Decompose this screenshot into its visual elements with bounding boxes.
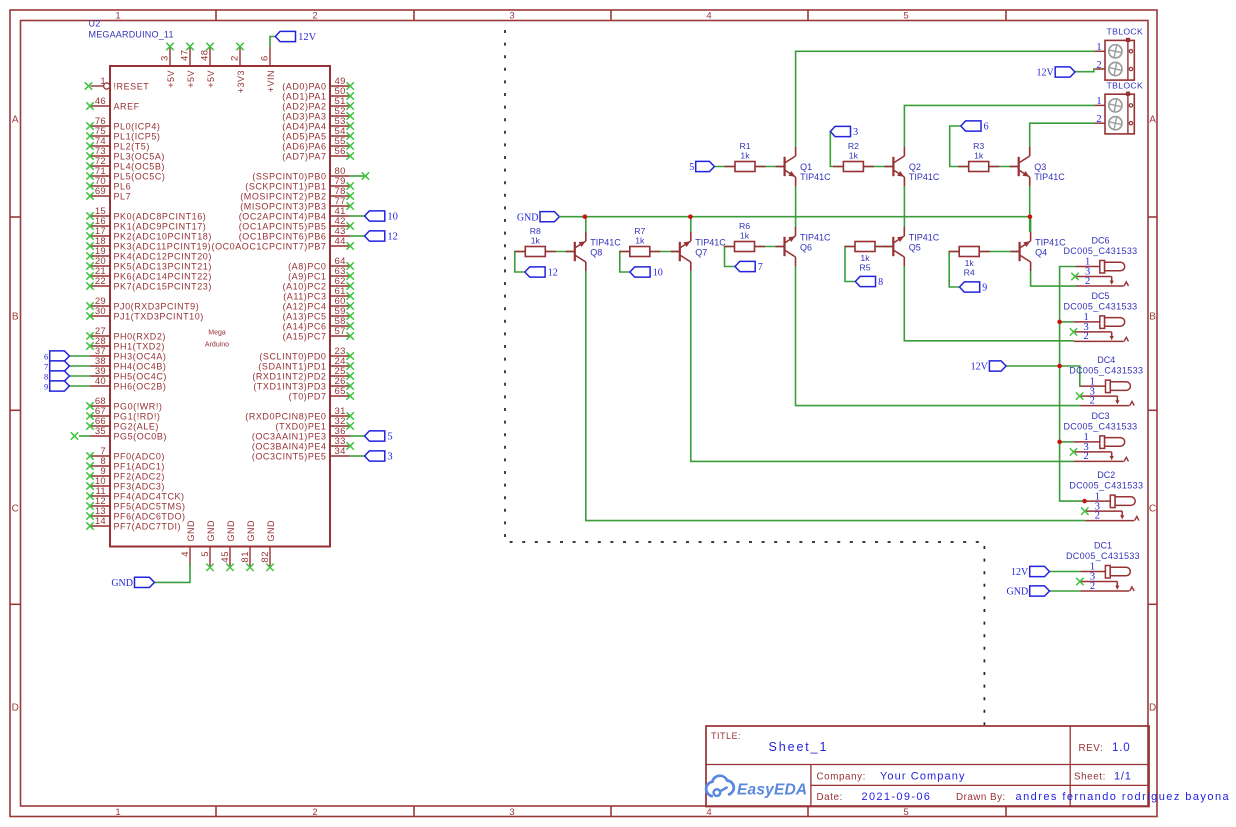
pin 16 (PK1(ADC9PCINT17)) left: [86, 216, 206, 231]
svg-text:EasyEDA: EasyEDA: [737, 782, 807, 799]
svg-text:(A10)PC2: (A10)PC2: [283, 281, 327, 291]
svg-text:56: 56: [335, 146, 346, 157]
power flag GND (rail): [517, 212, 560, 224]
svg-text:40: 40: [95, 376, 106, 387]
svg-text:GND: GND: [111, 578, 133, 589]
svg-text:PF6(ADC6TDO): PF6(ADC6TDO): [114, 511, 186, 521]
pin 24 ((SDAINT1)PD1) right: [258, 356, 354, 371]
pin 35 (PG5(OC0B)) left: [71, 426, 167, 441]
pin 41 ((OC2APCINT4)PB4) right: [239, 206, 350, 221]
svg-text:R5: R5: [859, 263, 870, 273]
svg-text:30: 30: [95, 306, 106, 317]
pin 49 ((AD0)PA0) right: [282, 76, 354, 91]
pin 79 ((SCKPCINT1)PB1) right: [245, 176, 354, 191]
power flag 12V (chip): [275, 31, 316, 43]
svg-text:U2: U2: [89, 19, 101, 29]
transistor Q7 TIP41C (NPN, flipped): [671, 232, 727, 271]
svg-text:(RXD0PCIN8)PE0: (RXD0PCIN8)PE0: [245, 411, 326, 421]
svg-text:2: 2: [1084, 331, 1089, 342]
wire GND flag to DC1 pin2: [1049, 590, 1080, 592]
pin 32 ((TXD0)PE1) right: [276, 416, 354, 431]
svg-text:Company:: Company:: [817, 771, 866, 782]
pin 66 (PG2(ALE)) left: [86, 416, 159, 431]
svg-text:C: C: [12, 504, 19, 515]
transistor Q4 TIP41C (NPN, flipped): [1011, 232, 1067, 271]
svg-text:(SCLINT0)PD0: (SCLINT0)PD0: [259, 351, 326, 361]
wire to net flag 5: [350, 435, 365, 437]
svg-text:1/1: 1/1: [1114, 771, 1132, 783]
svg-text:DC005_C431533: DC005_C431533: [1066, 551, 1140, 561]
svg-text:DC005_C431533: DC005_C431533: [1063, 421, 1137, 431]
svg-text:2: 2: [1096, 60, 1101, 71]
svg-text:1: 1: [1096, 42, 1101, 53]
net flag 10 (R7): [630, 267, 663, 279]
frame row letters right: [1149, 115, 1156, 714]
svg-text:(AD0)PA0: (AD0)PA0: [282, 81, 326, 91]
DC jack DC2 DC005_C431533: [1069, 470, 1143, 521]
net flag 8 (R5): [855, 276, 883, 288]
svg-text:Q4: Q4: [1035, 247, 1047, 257]
svg-text:D: D: [1149, 703, 1156, 714]
DC jack DC5 DC005_C431533: [1063, 291, 1137, 342]
svg-text:(RXD1INT2)PD2: (RXD1INT2)PD2: [252, 371, 326, 381]
svg-text:5: 5: [387, 432, 392, 443]
svg-text:3: 3: [509, 807, 514, 818]
pin 20 (PK5(ADC13PCINT21)) left: [86, 256, 212, 271]
svg-text:(AD6)PA6: (AD6)PA6: [282, 141, 326, 151]
svg-text:4: 4: [706, 807, 711, 818]
pin 75 (PL1(ICP5)) left: [86, 126, 160, 141]
IC U2 MEGAARDUINO_11: [89, 19, 331, 547]
svg-text:R4: R4: [964, 268, 975, 278]
svg-text:2: 2: [312, 11, 317, 22]
pin 43 ((OC1BPCINT6)PB6) right: [239, 226, 350, 241]
svg-text:1: 1: [115, 807, 120, 818]
pin 80 ((SSPCINT0)PB0) right: [252, 166, 369, 181]
svg-text:(TXD1INT3)PD3: (TXD1INT3)PD3: [253, 381, 326, 391]
wire to net flag 7: [69, 365, 90, 367]
svg-text:Sheet:: Sheet:: [1074, 772, 1106, 783]
pin 30 (PJ1(TXD3PCINT10)) left: [86, 306, 204, 321]
net flag 9: [44, 381, 69, 392]
pin 82 (GND) bottom: [260, 520, 276, 571]
svg-text:+VIN: +VIN: [266, 70, 276, 92]
svg-text:TIP41C: TIP41C: [909, 233, 940, 243]
svg-text:3: 3: [387, 452, 392, 463]
pin 65 ((T0)PD7) right: [289, 386, 354, 401]
svg-text:12V: 12V: [1036, 68, 1054, 79]
svg-text:8: 8: [878, 277, 883, 288]
pin 45 (GND) bottom: [220, 520, 236, 571]
transistor Q3 TIP41C (NPN): [1010, 147, 1066, 186]
wire DC5 pin1 tee: [1060, 321, 1074, 323]
pin 17 (PK2(ADC10PCINT18)) left: [86, 226, 212, 241]
svg-text:2: 2: [312, 807, 317, 818]
svg-text:1k: 1k: [974, 151, 984, 161]
svg-text:D: D: [12, 703, 19, 714]
svg-text:DC005_C431533: DC005_C431533: [1063, 246, 1137, 256]
wire flag7 to R6 to Q6 base: [725, 247, 785, 267]
wire GND rail: [559, 216, 1030, 218]
power flag 12V (TBLOCK1): [1036, 67, 1075, 79]
svg-text:82: 82: [260, 551, 271, 563]
svg-text:TBLOCK: TBLOCK: [1107, 27, 1144, 37]
pin 39 (PH5(OC4C)) left: [90, 366, 167, 381]
svg-text:12: 12: [548, 268, 558, 279]
svg-text:1k: 1k: [965, 258, 975, 268]
svg-text:6: 6: [984, 122, 989, 133]
pin 74 (PL2(T5)) left: [86, 136, 150, 151]
svg-text:PK3(ADC11PCINT19): PK3(ADC11PCINT19): [114, 241, 212, 251]
wire to net flag 8: [69, 375, 90, 377]
svg-text:1k: 1k: [860, 253, 870, 263]
pin 44 ((OC0AOC1CPCINT7)PB7) right: [212, 236, 354, 251]
wire flag5 to R1 to Q1 base: [714, 166, 784, 168]
pin 34 ((OC3CINT5)PE5) right: [252, 446, 350, 461]
net flag 3: [830, 126, 858, 138]
net flag 3: [365, 451, 393, 463]
svg-text:(AD5)PA5: (AD5)PA5: [282, 131, 326, 141]
svg-text:PL5(OC5C): PL5(OC5C): [114, 171, 166, 181]
svg-text:PH6(OC2B): PH6(OC2B): [114, 381, 167, 391]
svg-text:B: B: [12, 312, 19, 323]
net flag 6: [44, 351, 69, 362]
svg-text:2: 2: [1095, 510, 1100, 521]
svg-text:46: 46: [95, 96, 106, 107]
svg-text:34: 34: [335, 446, 346, 457]
svg-text:DC5: DC5: [1091, 291, 1109, 301]
svg-text:(A12)PC4: (A12)PC4: [283, 301, 327, 311]
pin 14 (PF7(ADC7TDI)) left: [86, 516, 181, 531]
pin 73 (PL3(OC5A)) left: [86, 146, 165, 161]
wire to net flag 3: [350, 455, 365, 457]
svg-text:TIP41C: TIP41C: [909, 172, 940, 182]
pin 69 (PL7) left: [86, 186, 131, 201]
svg-text:(OC3CINT5)PE5: (OC3CINT5)PE5: [252, 451, 327, 461]
wire DC pin1 bus (12V distribution): [1060, 267, 1086, 502]
pin 77 ((MISOPCINT3)PB3) right: [240, 196, 354, 211]
svg-text:69: 69: [95, 186, 106, 197]
wire flag12 to R8 to Q8 base: [515, 252, 575, 273]
wire Q4 collector to DC6 pin2: [1031, 271, 1076, 286]
dashed partition lines: [505, 30, 984, 725]
wire pin4 to GND flag: [154, 563, 190, 582]
wire flag9 to R4 to Q4 base: [949, 252, 1019, 288]
svg-text:6: 6: [44, 352, 48, 362]
svg-text:PK4(ADC12PCINT20): PK4(ADC12PCINT20): [114, 251, 212, 261]
pin 19 (PK4(ADC12PCINT20)) left: [86, 246, 212, 261]
svg-text:(A9)PC1: (A9)PC1: [288, 271, 326, 281]
svg-text:5: 5: [903, 11, 908, 22]
pin 27 (PH0(RXD2)) left: [86, 326, 166, 341]
pin 52 ((AD3)PA3) right: [282, 106, 354, 121]
svg-text:PH5(OC4C): PH5(OC4C): [114, 371, 167, 381]
svg-text:PL7: PL7: [114, 191, 132, 201]
pin 38 (PH4(OC4B)) left: [90, 356, 166, 371]
svg-text:(OC0AOC1CPCINT7)PB7: (OC0AOC1CPCINT7)PB7: [212, 241, 327, 251]
wire 12V flag (mid) to bus: [1006, 365, 1060, 367]
svg-text:PG0(!WR!): PG0(!WR!): [114, 401, 163, 411]
svg-text:(AD2)PA2: (AD2)PA2: [282, 101, 326, 111]
wire Q7 collector to DC3 pin2: [691, 271, 1074, 461]
pin 68 (PG0(!WR!)) left: [86, 396, 162, 411]
pin 18 (PK3(ADC11PCINT19)) left: [86, 236, 211, 251]
svg-text:2: 2: [230, 55, 241, 61]
wire bus to DC4 pin1: [1060, 366, 1081, 386]
svg-text:TIP41C: TIP41C: [800, 172, 831, 182]
junction (DC2 pin1): [1082, 499, 1087, 504]
svg-text:TITLE:: TITLE:: [711, 731, 741, 741]
pin 78 ((MOSIPCINT2)PB2) right: [240, 186, 354, 201]
svg-text:(A13)PC5: (A13)PC5: [283, 311, 327, 321]
svg-text:PF5(ADC5TMS): PF5(ADC5TMS): [114, 501, 186, 511]
svg-text:47: 47: [180, 49, 191, 61]
svg-text:2: 2: [1096, 114, 1101, 125]
resistor R7 (labels above): [619, 226, 660, 257]
svg-text:1: 1: [115, 11, 120, 22]
svg-text:(A11)PC3: (A11)PC3: [283, 291, 326, 301]
wire 12V flag to TBLOCK1 pin2: [1075, 69, 1095, 72]
pin 2 (+3V3) top: [230, 43, 246, 93]
svg-text:TIP41C: TIP41C: [695, 238, 726, 248]
wire Q8 emitter to rail: [585, 217, 587, 232]
svg-text:PG5(OC0B): PG5(OC0B): [114, 431, 167, 441]
svg-text:(AD1)PA1: (AD1)PA1: [282, 91, 326, 101]
svg-text:PK0(ADC8PCINT16): PK0(ADC8PCINT16): [114, 211, 207, 221]
pin 57 ((A15)PC7) right: [283, 326, 354, 341]
svg-text:1k: 1k: [849, 151, 859, 161]
pin 9 (PF2(ADC2)) left: [86, 466, 165, 481]
pin 8 (PF1(ADC1)) left: [86, 456, 165, 471]
svg-text:48: 48: [200, 49, 211, 61]
svg-text:1.0: 1.0: [1112, 742, 1130, 754]
svg-text:TIP41C: TIP41C: [800, 233, 831, 243]
svg-text:PL6: PL6: [114, 181, 132, 191]
pin 13 (PF6(ADC6TDO)) left: [86, 506, 185, 521]
pin 15 (PK0(ADC8PCINT16)) left: [86, 206, 206, 221]
svg-text:R1: R1: [739, 141, 750, 151]
pin 26 ((TXD1INT3)PD3) right: [253, 376, 354, 391]
svg-text:5: 5: [689, 162, 694, 173]
svg-text:65: 65: [335, 386, 346, 397]
svg-text:B: B: [1149, 312, 1156, 323]
svg-text:Q6: Q6: [800, 242, 812, 252]
svg-text:(OC3BAIN4)PE4: (OC3BAIN4)PE4: [252, 441, 327, 451]
transistor Q6 TIP41C (NPN, flipped): [776, 227, 832, 266]
net flag 9 (R4): [960, 282, 988, 294]
svg-text:(MOSIPCINT2)PB2: (MOSIPCINT2)PB2: [240, 191, 326, 201]
svg-text:DC1: DC1: [1094, 541, 1112, 551]
svg-text:Q2: Q2: [909, 162, 921, 172]
wire Q6 collector to DC4 pin2: [796, 266, 1081, 406]
svg-text:5: 5: [200, 551, 211, 557]
svg-text:1k: 1k: [740, 151, 750, 161]
svg-text:MEGAARDUINO_11: MEGAARDUINO_11: [89, 30, 174, 40]
svg-text:(OC1APCINT5)PB5: (OC1APCINT5)PB5: [239, 221, 327, 231]
svg-text:(OC1BPCINT6)PB6: (OC1BPCINT6)PB6: [239, 231, 327, 241]
wire DC3 pin1 tee: [1060, 441, 1074, 443]
svg-text:(MISOPCINT3)PB3: (MISOPCINT3)PB3: [240, 201, 326, 211]
svg-text:A: A: [12, 115, 19, 126]
svg-text:Arduino: Arduino: [205, 342, 229, 349]
pin 81 (GND) bottom: [240, 520, 256, 571]
net flag 5: [365, 431, 393, 443]
svg-text:andres fernando rodriguez bayo: andres fernando rodriguez bayona: [1016, 791, 1231, 803]
wire Q3 collector to TBLOCK2 pin2: [1030, 123, 1095, 147]
pin 11 (PF4(ADC4TCK)) left: [86, 486, 184, 501]
pin 50 ((AD1)PA1) right: [282, 86, 354, 101]
svg-text:57: 57: [335, 326, 346, 337]
pin 60 ((A12)PC4) right: [283, 296, 354, 311]
svg-text:3: 3: [160, 55, 171, 61]
svg-text:PH1(TXD2): PH1(TXD2): [114, 341, 165, 351]
wire Q7 emitter to rail: [690, 217, 692, 232]
svg-text:Q1: Q1: [800, 162, 812, 172]
svg-text:(AD7)PA7: (AD7)PA7: [282, 151, 326, 161]
svg-text:1k: 1k: [635, 236, 645, 246]
svg-text:Mega: Mega: [208, 330, 226, 337]
pin 40 (PH6(OC2B)) left: [90, 376, 166, 391]
svg-text:1k: 1k: [531, 236, 541, 246]
svg-text:12V: 12V: [1011, 567, 1029, 578]
junction (DC5 pin1 / bus): [1057, 320, 1062, 325]
svg-text:PH3(OC4A): PH3(OC4A): [114, 351, 167, 361]
svg-text:Q3: Q3: [1034, 162, 1046, 172]
svg-text:Q8: Q8: [590, 247, 602, 257]
svg-text:12: 12: [387, 232, 398, 243]
resistor R6 (labels above): [724, 221, 765, 252]
svg-text:PH0(RXD2): PH0(RXD2): [114, 331, 166, 341]
svg-text:Your Company: Your Company: [880, 770, 966, 782]
svg-text:GND: GND: [246, 520, 256, 542]
pin 47 (+5V) top: [180, 43, 196, 88]
svg-text:GND: GND: [226, 520, 236, 542]
svg-text:TIP41C: TIP41C: [1034, 172, 1065, 182]
svg-text:1: 1: [100, 76, 106, 87]
svg-text:45: 45: [220, 551, 231, 563]
wire Q1 emitter / Q6 emitter: [795, 186, 797, 227]
svg-text:5: 5: [903, 807, 908, 818]
pin 54 ((AD5)PA5) right: [282, 126, 354, 141]
svg-text:(OC3AAIN1)PE3: (OC3AAIN1)PE3: [252, 431, 327, 441]
svg-text:12V: 12V: [971, 362, 989, 373]
svg-text:DC6: DC6: [1091, 236, 1109, 246]
pin 1 (!RESET) left: [85, 76, 150, 91]
svg-text:(AD3)PA3: (AD3)PA3: [282, 111, 326, 121]
svg-text:TBLOCK: TBLOCK: [1107, 80, 1144, 90]
svg-text:(TXD0)PE1: (TXD0)PE1: [276, 421, 327, 431]
svg-text:(A8)PC0: (A8)PC0: [288, 261, 326, 271]
svg-text:GND: GND: [1007, 587, 1029, 598]
pin 4 (GND) bottom: [180, 520, 196, 566]
svg-text:A: A: [1149, 115, 1156, 126]
svg-text:Q5: Q5: [909, 242, 921, 252]
svg-text:PF1(ADC1): PF1(ADC1): [114, 461, 165, 471]
pin 33 ((OC3BAIN4)PE4) right: [252, 436, 354, 451]
svg-text:4: 4: [180, 551, 191, 557]
wire Q2 emitter / Q5 emitter: [903, 186, 905, 227]
net flag 5: [689, 161, 714, 173]
svg-text:REV:: REV:: [1079, 743, 1104, 754]
svg-text:TIP41C: TIP41C: [590, 238, 621, 248]
svg-text:12V: 12V: [298, 32, 317, 43]
junction (12V flag / DC4 branch / bus): [1057, 364, 1062, 369]
svg-text:2: 2: [1090, 581, 1095, 592]
svg-text:PG2(ALE): PG2(ALE): [114, 421, 159, 431]
frame column numbers bottom: [115, 807, 908, 818]
junction (DC3 pin1 / bus): [1057, 440, 1062, 445]
pin 62 ((A10)PC2) right: [283, 276, 354, 291]
svg-text:PF2(ADC2): PF2(ADC2): [114, 471, 165, 481]
pin 48 (+5V) top: [200, 43, 216, 88]
svg-text:(SCKPCINT1)PB1: (SCKPCINT1)PB1: [245, 181, 326, 191]
svg-text:10: 10: [387, 212, 398, 223]
svg-text:!RESET: !RESET: [114, 81, 150, 91]
power flag GND (chip): [111, 577, 154, 589]
svg-text:DC005_C431533: DC005_C431533: [1069, 366, 1143, 376]
wire Q3 emitter / Q4 emitter: [1029, 186, 1031, 232]
svg-text:AREF: AREF: [114, 101, 140, 111]
junction (Q8 emitter / GND rail): [583, 214, 588, 219]
wire Q8 collector to DC2 pin2: [586, 271, 1086, 521]
svg-text:Sheet_1: Sheet_1: [769, 740, 829, 754]
svg-text:DC005_C431533: DC005_C431533: [1069, 481, 1143, 491]
transistor Q5 TIP41C (NPN, flipped): [884, 227, 940, 266]
wire Q4 emitter to rail: [1030, 217, 1032, 232]
svg-text:DC4: DC4: [1097, 355, 1115, 365]
svg-text:PF7(ADC7TDI): PF7(ADC7TDI): [114, 521, 182, 531]
net flag 8: [44, 371, 69, 382]
net flag 12: [365, 231, 398, 243]
DC jack DC3 DC005_C431533: [1063, 411, 1137, 462]
svg-text:DC2: DC2: [1097, 470, 1115, 480]
wire pin6 to 12V flag: [270, 37, 275, 47]
svg-text:(T0)PD7: (T0)PD7: [289, 391, 327, 401]
svg-text:PK5(ADC13PCINT21): PK5(ADC13PCINT21): [114, 261, 212, 271]
svg-text:PL3(OC5A): PL3(OC5A): [114, 151, 165, 161]
pin 25 ((RXD1INT2)PD2) right: [252, 366, 354, 381]
wire 12V flag to DC1 pin1: [1049, 571, 1080, 573]
svg-text:(SSPCINT0)PB0: (SSPCINT0)PB0: [252, 171, 326, 181]
svg-text:1: 1: [1096, 96, 1101, 107]
pin 37 (PH3(OC4A)) left: [90, 346, 166, 361]
pin 61 ((A11)PC3) right: [283, 286, 354, 301]
svg-text:PF3(ADC3): PF3(ADC3): [114, 481, 165, 491]
pin 6 (+VIN) top: [260, 47, 276, 93]
frame row letters left: [12, 115, 19, 714]
net flag 6 (R3): [961, 121, 989, 133]
pin 55 ((AD6)PA6) right: [282, 136, 354, 151]
pin 67 (PG1(!RD!)) left: [86, 406, 160, 421]
svg-text:3: 3: [853, 127, 858, 138]
pin 10 (PF3(ADC3)) left: [86, 476, 165, 491]
wire Q2 collector to TBLOCK2 pin1: [904, 105, 1095, 147]
net flag 12 (R8): [525, 267, 558, 279]
svg-text:R7: R7: [634, 226, 645, 236]
pin 31 ((RXD0PCIN8)PE0) right: [245, 406, 354, 421]
svg-text:R3: R3: [973, 141, 984, 151]
power flag 12V (DC1): [1011, 566, 1050, 578]
svg-text:PF0(ADC0): PF0(ADC0): [114, 451, 165, 461]
svg-text:PK7(ADC15PCINT23): PK7(ADC15PCINT23): [114, 281, 212, 291]
svg-text:1k: 1k: [740, 231, 750, 241]
resistor R5 (labels below): [845, 242, 886, 273]
wire flag3 to R2 to Q2 base: [830, 132, 893, 167]
pin 58 ((A14)PC6) right: [283, 316, 354, 331]
svg-text:2: 2: [1085, 276, 1090, 287]
svg-text:PL4(OC5B): PL4(OC5B): [114, 161, 165, 171]
junction (Q7 emitter / GND rail): [688, 214, 693, 219]
